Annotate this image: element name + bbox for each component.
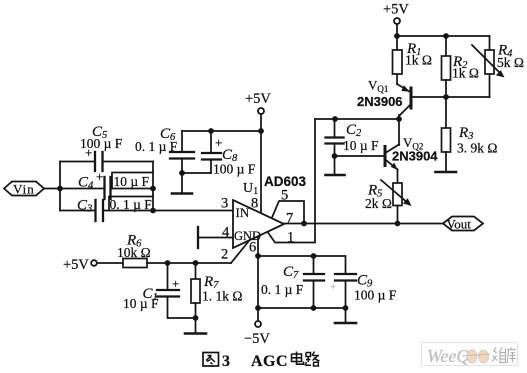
ground under C9: [335, 322, 356, 325]
svg-text:10 µ F: 10 µ F: [114, 174, 150, 189]
terminal -5V: [255, 321, 261, 327]
wire C4 branch left: [60, 188, 104, 190]
resistor R3: [442, 97, 451, 172]
svg-text:3. 9k Ω: 3. 9k Ω: [457, 141, 497, 156]
svg-text:7: 7: [286, 211, 293, 227]
svg-text:0. 1 µ F: 0. 1 µ F: [110, 197, 153, 212]
junction C8 top: [208, 128, 214, 134]
wire label box 10uF: [112, 173, 153, 189]
capacitor C2: [326, 138, 344, 144]
capacitor C8: [202, 153, 221, 160]
wire Q1 collector down: [398, 115, 400, 119]
terminal +5V mid: [258, 108, 264, 114]
svg-text:+5V: +5V: [245, 91, 271, 107]
wire left input rail: [59, 162, 61, 211]
junction R7 C1 bottom: [193, 315, 199, 321]
wire pin 5 feedback: [272, 201, 304, 224]
svg-text:−5V: −5V: [244, 331, 270, 347]
hanzi ku: [508, 348, 517, 363]
svg-text:+5V: +5V: [63, 257, 89, 273]
hanzi lu: [305, 352, 320, 367]
ground under C2: [326, 174, 345, 177]
svg-text:0. 1 µ F: 0. 1 µ F: [261, 282, 304, 297]
svg-text:1: 1: [287, 230, 294, 246]
transistor Q1 2N3906: [397, 84, 411, 116]
capacitor C4: [105, 177, 111, 199]
svg-text:10 µ F: 10 µ F: [123, 296, 159, 311]
wire bottom rail: [258, 307, 346, 309]
terminal +5V top: [394, 18, 400, 24]
svg-text:2N3906: 2N3906: [357, 94, 403, 109]
svg-text:10k Ω: 10k Ω: [117, 245, 151, 260]
resistor R2: [442, 36, 451, 97]
junction C7 top: [311, 253, 317, 259]
wire C7 stems: [313, 256, 315, 308]
wire output: [284, 223, 443, 225]
caption: [203, 353, 219, 367]
resistor R4 (variable): [472, 36, 505, 97]
junction R7 top: [193, 260, 199, 266]
junction pin6 top wire: [255, 253, 261, 259]
wire C6 top stem: [181, 131, 183, 151]
svg-text:6: 6: [249, 240, 256, 256]
hanzi wei: [492, 348, 507, 363]
wire R6 to pin 2: [147, 262, 231, 264]
junction R5 output: [395, 221, 401, 227]
junction collectors: [396, 116, 402, 122]
junction R2 top: [443, 33, 449, 39]
svg-text:+: +: [172, 276, 179, 291]
svg-text:2: 2: [221, 247, 228, 263]
wire R5 bottom: [397, 206, 399, 224]
terminal +5V left: [91, 260, 97, 266]
wire C2 top stem: [334, 119, 336, 137]
svg-text:5: 5: [281, 188, 288, 204]
wire pin 2 diagonal: [231, 241, 249, 263]
junction C3 right: [150, 208, 156, 214]
svg-text:8: 8: [251, 196, 258, 212]
svg-text:3: 3: [222, 353, 230, 370]
wire C9 bottom stem: [345, 281, 347, 323]
wire right input rail: [152, 162, 154, 211]
wire pin 4: [198, 237, 233, 239]
svg-text:Vin: Vin: [13, 182, 35, 197]
svg-text:GND: GND: [234, 229, 261, 243]
capacitor C1: [157, 290, 179, 297]
wire Q2 base: [335, 155, 385, 157]
svg-text:IN: IN: [236, 205, 250, 220]
junction C4 right: [150, 186, 156, 192]
ground under C6: [172, 192, 192, 195]
junction C6 bottom: [179, 170, 185, 176]
junction C7 bottom: [311, 305, 317, 311]
wire Q2 collector up: [398, 119, 400, 145]
wire pin 1 feedback: [268, 119, 315, 243]
junction C2 base node: [332, 153, 338, 159]
capacitor C6: [170, 152, 194, 159]
svg-text:+: +: [85, 145, 92, 160]
svg-text:+5V: +5V: [383, 2, 409, 18]
wire C3 branch to pin 3: [104, 210, 234, 212]
wire Q2 emitter down: [397, 170, 399, 184]
capacitor C5: [95, 152, 103, 171]
svg-text:Vout: Vout: [447, 217, 472, 232]
junction +5V top rail: [394, 33, 400, 39]
wire label box 0.1uF: [109, 197, 153, 211]
junction R2 bottom: [443, 94, 449, 100]
wire C4 branch right: [111, 188, 153, 190]
capacitor C7: [304, 274, 324, 281]
svg-text:100 µ F: 100 µ F: [354, 288, 397, 303]
junction C2 top: [332, 116, 338, 122]
ground under R3: [436, 171, 457, 174]
junction pin6 bottom wire: [255, 305, 261, 311]
ground under R7: [185, 332, 206, 335]
svg-text:100 µ F: 100 µ F: [213, 162, 256, 177]
resistor R5 (variable): [381, 180, 412, 206]
svg-text:10 µ F: 10 µ F: [343, 138, 379, 153]
svg-text:2N3904: 2N3904: [392, 149, 438, 164]
transistor Q2 2N3904: [385, 145, 399, 171]
wire C1 bottom stem: [168, 297, 196, 318]
svg-text:5k Ω: 5k Ω: [497, 55, 524, 70]
wire bypass top rail: [182, 130, 261, 132]
junction +5V mid: [258, 128, 264, 134]
wire C5 branch left: [60, 161, 94, 163]
wire C1 top stem: [167, 263, 169, 290]
svg-text:2k Ω: 2k Ω: [365, 196, 392, 211]
wire feedback top: [315, 118, 399, 120]
wire pin 8 supply: [260, 131, 262, 213]
watermark: [422, 343, 518, 367]
svg-text:1k Ω: 1k Ω: [452, 66, 479, 81]
wire C8 bottom stem: [210, 160, 212, 173]
capacitor C9: [335, 274, 356, 281]
svg-text:0. 1 µ F: 0. 1 µ F: [135, 139, 178, 154]
resistor R7: [191, 263, 200, 333]
svg-text:3: 3: [221, 196, 228, 212]
wire C5 branch right: [103, 161, 153, 163]
node Vout: [443, 217, 483, 231]
wire C3 branch left: [60, 210, 95, 212]
hanzi tu: [203, 353, 219, 367]
wire C6 bottom stem: [181, 159, 183, 193]
wire pin 6: [257, 237, 259, 322]
node Vin: [4, 182, 44, 196]
resistor R1: [393, 36, 403, 84]
junction C9 bottom: [343, 305, 349, 311]
hanzi dian: [292, 352, 304, 365]
svg-text:+: +: [96, 169, 103, 184]
junction input node: [57, 186, 63, 192]
svg-text:1. 1k Ω: 1. 1k Ω: [202, 289, 242, 304]
ground bar pin 4: [197, 227, 199, 248]
svg-text:AGC: AGC: [251, 353, 288, 370]
svg-text:+: +: [330, 282, 336, 294]
wire C6-C8 bottom link: [182, 172, 211, 174]
wire +5V to R6: [97, 262, 123, 264]
wire top supply rail: [397, 35, 490, 37]
wire Q1 base rail: [413, 96, 490, 98]
wire +5V mid down: [260, 114, 262, 131]
junction C1 top: [165, 260, 171, 266]
svg-text:4: 4: [222, 225, 230, 241]
capacitor C3: [96, 200, 104, 221]
wire +5V top down: [396, 24, 398, 36]
wire C7C9 top rail: [258, 256, 346, 274]
op-amp U1 AD603: [233, 200, 284, 248]
wire Vin to input rail: [44, 188, 60, 190]
svg-text:1k Ω: 1k Ω: [405, 53, 432, 68]
junction pin5-output: [301, 221, 307, 227]
wire C8 top stem: [210, 131, 212, 152]
wire C2 bottom stem: [334, 144, 336, 175]
resistor R6: [123, 259, 147, 268]
